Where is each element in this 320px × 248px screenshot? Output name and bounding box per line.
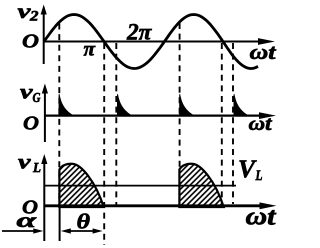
svg-text:L: L [32, 161, 41, 176]
svg-text:ωt: ωt [250, 40, 277, 64]
svg-text:G: G [33, 91, 41, 106]
svg-text:2: 2 [29, 9, 39, 25]
svg-text:ωt: ωt [246, 204, 277, 231]
svg-text:π: π [84, 39, 97, 61]
svg-text:V: V [238, 156, 257, 183]
svg-text:L: L [255, 168, 263, 184]
svg-text:O: O [23, 112, 39, 134]
svg-text:O: O [22, 30, 39, 52]
svg-text:2π: 2π [126, 20, 153, 45]
svg-text:ωt: ωt [249, 113, 274, 135]
svg-text:θ: θ [77, 209, 91, 233]
svg-text:α: α [17, 208, 37, 232]
svg-text:v: v [18, 151, 32, 173]
